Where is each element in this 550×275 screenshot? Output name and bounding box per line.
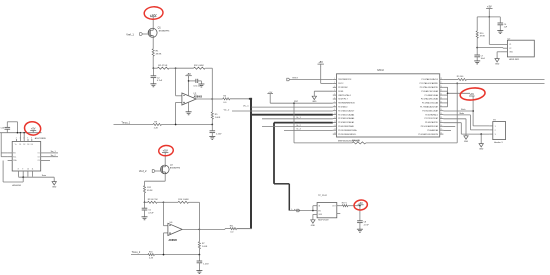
annotation red ellipse around +3V at regulator (353, 199, 368, 211)
svg-text:O1: O1 (37, 153, 39, 155)
capacitor C6 1uF (499, 17, 501, 23)
svg-text:P1.5/TA0.0/SCLK/A5: P1.5/TA0.0/SCLK/A5 (421, 98, 438, 101)
ground for Swin net (53, 177, 55, 181)
ground right of MCU (464, 136, 468, 139)
pin stubs U5 top (16, 139, 18, 142)
wire row1 to R9 (443, 79, 458, 81)
junction bottom net 2 rail (199, 254, 201, 256)
wire opamp2 output to thick bus (237, 228, 252, 230)
svg-text:1.00K: 1.00K (202, 246, 208, 248)
ground below C7 (474, 60, 480, 62)
wire GND pin down (312, 214, 314, 219)
svg-text:X1: X1 (509, 44, 511, 46)
wire right riser to row2 (456, 83, 458, 142)
wire node A to R2 (153, 67, 157, 69)
svg-text:49.9K: 49.9K (156, 53, 162, 55)
node A2 junction (144, 201, 146, 203)
svg-text:P2.2/TA1.1/CA4/A4: P2.2/TA1.1/CA4/A4 (338, 113, 354, 116)
ground below C8 (357, 228, 363, 230)
svg-text:P1.1/TA0.0/UCA0RXD: P1.1/TA0.0/UCA0RXD (420, 82, 439, 85)
svg-text:49.9K: 49.9K (147, 190, 153, 192)
svg-text:ADXL3611: ADXL3611 (509, 58, 520, 61)
svg-text:D3: D3 (27, 144, 29, 146)
junction RST to bottom route (293, 102, 295, 104)
wire R7 to bottom net 2 (198, 249, 200, 255)
svg-text:TP_2102: TP_2102 (318, 195, 328, 197)
wire +3V down to header pin 1 (472, 96, 474, 126)
resistor R4 0.0 (223, 98, 230, 100)
svg-text:XOUT/P2.7: XOUT/P2.7 (338, 99, 347, 101)
svg-text:DVCC: DVCC (338, 83, 344, 85)
wire thick route B horizontal to MCU (274, 122, 333, 124)
wire row13 stub (443, 126, 455, 128)
annotation red ellipse around +5V at U5 (23, 120, 41, 136)
svg-text:Header 3: Header 3 (494, 141, 503, 144)
pin labels U5 right inside (37, 153, 39, 163)
pin labels U5 inside top (15, 144, 33, 146)
svg-text:C6: C6 (504, 24, 506, 26)
resistor R15 2.2K (148, 254, 155, 256)
wire route B jog (274, 183, 289, 185)
wire bottom net 2 left segment (131, 254, 148, 256)
junction bottom net at output rail (211, 124, 213, 126)
wire row10 to header pin 2 (443, 114, 470, 116)
connector P2 Header 3 (493, 122, 506, 140)
ground below U4 (311, 220, 315, 223)
svg-text:26: 26 (440, 86, 442, 88)
svg-text:+5V: +5V (319, 61, 324, 64)
wire node B2 down to inverting input (163, 202, 165, 225)
wire thick vertical bus from outputs (250, 98, 252, 229)
svg-text:12: 12 (334, 121, 336, 123)
wire output2 to R11 (199, 228, 225, 230)
svg-text:GND: GND (311, 225, 316, 227)
resistor R13 47.5K (148, 201, 158, 203)
svg-text:10: 10 (27, 169, 29, 171)
svg-text:24: 24 (440, 94, 442, 96)
capacitor C16 bypass loop (6, 129, 8, 132)
svg-text:MCU: MCU (377, 68, 383, 72)
svg-text:O2: O2 (37, 156, 39, 158)
svg-text:Vtc_1: Vtc_1 (243, 104, 249, 107)
svg-text:Swin: Swin (42, 175, 46, 177)
svg-text:25: 25 (440, 90, 442, 92)
node output2 junction (199, 229, 201, 231)
pin numbers U3 left (334, 78, 336, 135)
svg-text:4.7uF: 4.7uF (364, 224, 370, 226)
svg-text:R2 47.5K: R2 47.5K (158, 65, 168, 67)
svg-text:27: 27 (440, 82, 442, 84)
svg-text:4.7uF: 4.7uF (148, 212, 154, 214)
wire +3V rail (488, 11, 490, 17)
wire output junction down to R5 (211, 99, 213, 112)
wire node B to R3 (176, 67, 194, 69)
wire right pin bus vertical (447, 87, 449, 107)
resistor R16 47K (352, 142, 366, 144)
wire R3 to output rail corner (205, 67, 212, 69)
svg-text:C7: C7 (481, 55, 483, 57)
svg-text:+5V: +5V (163, 149, 168, 153)
svg-text:Sw_1: Sw_1 (51, 151, 57, 153)
svg-text:MCP1700T: MCP1700T (318, 220, 329, 222)
ground below header (479, 144, 483, 147)
capacitor C2 4.7uF (152, 68, 154, 76)
svg-text:22: 22 (440, 101, 442, 103)
wire Vref_2 to Q2 gate (155, 170, 161, 172)
capacitor C4 to ground 1.25V (211, 125, 213, 131)
svg-text:2.2K: 2.2K (154, 127, 159, 129)
svg-text:P3.4/UCA0TXD: P3.4/UCA0TXD (425, 121, 439, 124)
ground below U7 pin3 (495, 59, 499, 62)
capacitor C5 4.7uF (144, 202, 146, 208)
node output1 junction (211, 98, 213, 100)
wire Vref_1 to Q1 gate (143, 33, 149, 35)
pin stubs P2 (489, 125, 493, 127)
svg-text:1.25V: 1.25V (203, 263, 209, 265)
svg-text:SCL: SCL (13, 156, 16, 158)
resistor R12 49.9K (143, 186, 145, 193)
svg-text:P3.2/UCB0SOMI/SCL: P3.2/UCB0SOMI/SCL (338, 134, 356, 136)
junction +3V row9 (472, 110, 474, 112)
pin bus stubs rows 3-8 (443, 86, 447, 88)
svg-text:Vref_1: Vref_1 (126, 32, 134, 36)
svg-text:14: 14 (440, 133, 442, 135)
wire output2 junction down to R7 (198, 229, 200, 241)
transistor Q1 BSS84 (148, 28, 157, 37)
wire row12 to header pin 3 (443, 122, 461, 124)
svg-text:GND: GND (464, 141, 469, 143)
svg-text:P1.3/ADC10CLK/A3: P1.3/ADC10CLK/A3 (421, 90, 438, 93)
wire rail horizontal (477, 16, 500, 18)
svg-text:D4: D4 (31, 144, 33, 146)
svg-text:49.9K: 49.9K (480, 36, 486, 38)
ground below C5 (142, 216, 148, 218)
node +3V net at MCU (447, 92, 449, 94)
svg-text:P1.0/TA0CLK/ACLK: P1.0/TA0CLK/ACLK (422, 78, 439, 81)
svg-text:R16 47K: R16 47K (352, 140, 360, 142)
wire +5V to Q2 (164, 155, 166, 165)
svg-text:R17 0: R17 0 (342, 203, 347, 205)
svg-text:11: 11 (32, 169, 34, 171)
svg-text:6: 6 (31, 137, 32, 139)
wire RST net (269, 94, 271, 104)
svg-text:D1: D1 (19, 144, 21, 146)
ground below C6 (497, 30, 503, 32)
svg-text:P1.7/SDA/CAOUT/A7: P1.7/SDA/CAOUT/A7 (420, 106, 438, 109)
svg-text:4: 4 (23, 137, 24, 139)
wire U5 top pin risers (19, 133, 21, 139)
wire input to EN/IN (289, 210, 313, 212)
wire R9 to edge (467, 79, 545, 81)
wire thick route B vertical (273, 123, 275, 184)
svg-text:ADG715BRU: ADG715BRU (35, 137, 47, 140)
wire R16 to right riser (366, 142, 457, 144)
svg-text:P2.5/ROSC: P2.5/ROSC (338, 87, 348, 89)
svg-text:P2.4/TA1.2/CA1/A1: P2.4/TA1.2/CA1/A1 (338, 121, 354, 124)
node TEST net label (287, 78, 290, 81)
wire feedback rail (211, 68, 213, 99)
wire V+ branch to C3 (188, 80, 190, 82)
wire Sw nets right of U5 (45, 152, 59, 154)
svg-text:P2.1/TA1.1/CAOUT: P2.1/TA1.1/CAOUT (338, 109, 355, 112)
svg-text:15: 15 (440, 129, 442, 131)
svg-text:13: 13 (334, 125, 336, 127)
svg-text:Tmcu_1: Tmcu_1 (121, 121, 130, 124)
wire R5 to bottom net (211, 119, 213, 124)
svg-text:OUT: OUT (332, 206, 336, 208)
svg-text:11: 11 (334, 117, 336, 119)
wire row14 stub (443, 130, 451, 132)
wire route B down to regulator (288, 184, 290, 211)
wire U1 V- to ground (188, 102, 190, 112)
svg-text:20: 20 (440, 109, 442, 111)
svg-text:1.00K: 1.00K (215, 117, 221, 119)
wire U6 output to junction (182, 228, 199, 230)
svg-text:GND: GND (52, 187, 57, 189)
svg-text:+12V: +12V (150, 13, 157, 17)
ground below U1 (186, 111, 192, 113)
wire U1 output to junction (196, 98, 212, 100)
svg-text:BSS84PH6: BSS84PH6 (170, 167, 181, 169)
wire U5 bottom left loop (2, 161, 4, 183)
svg-text:O3: O3 (37, 160, 39, 162)
svg-text:R3 1.00M: R3 1.00M (194, 65, 204, 67)
resistor R10 49.9K (476, 31, 478, 38)
svg-text:P2.0/TA1.0: P2.0/TA1.0 (338, 106, 347, 109)
capacitor C7 10nF (476, 48, 478, 55)
svg-text:TEST/SBWTCK: TEST/SBWTCK (338, 79, 352, 81)
svg-text:2.2K: 2.2K (149, 257, 154, 259)
wire RST bottom route (294, 142, 352, 144)
wire R10 to divider node (476, 38, 478, 47)
resistor R14 1.00M feedback (178, 201, 189, 203)
resistor R11 0.0 (230, 228, 237, 230)
svg-text:D2: D2 (23, 144, 25, 146)
wire output to R4 (212, 98, 223, 100)
annotation red ellipse around +3V near MCU (459, 87, 485, 102)
svg-text:1: 1 (495, 126, 496, 128)
svg-text:X2: X2 (509, 48, 511, 50)
svg-text:5: 5 (27, 137, 28, 139)
wire TEST to pin 1 (290, 79, 333, 81)
svg-text:GND: GND (495, 64, 500, 66)
wire R15 to junctions (155, 254, 200, 256)
node A junction (153, 67, 155, 69)
pin stubs U3 left (333, 79, 337, 81)
wire thick corner from R4 (249, 98, 252, 100)
svg-text:P2.3/TA1.0/CA0/A0: P2.3/TA1.0/CA0/A0 (338, 117, 354, 120)
wire +5V to DVCC pin (320, 66, 322, 83)
wire Q2 source down with jog (164, 174, 166, 181)
svg-text:ADG658: ADG658 (12, 184, 21, 187)
svg-text:2: 2 (495, 130, 496, 132)
pin stubs U3 right (440, 79, 444, 81)
svg-text:AD8605: AD8605 (169, 239, 178, 242)
wire row9 to +3V riser (443, 110, 473, 112)
wire +5V rail of U5 (0, 132, 42, 134)
svg-text:10: 10 (334, 113, 336, 115)
wire RST down to resistor row (293, 103, 295, 143)
wire R13 to node B2 (157, 201, 163, 203)
svg-text:V+: V+ (15, 144, 17, 146)
node top right junction (488, 16, 490, 18)
resistor R8 2.2K (153, 123, 162, 125)
svg-text:9: 9 (22, 169, 23, 171)
ground for C3 (200, 81, 202, 84)
svg-text:P3.5/UCA0RXD/CA5: P3.5/UCA0RXD/CA5 (421, 125, 438, 128)
svg-text:Tmcu_2: Tmcu_2 (132, 251, 141, 254)
pin labels U7 (509, 44, 514, 53)
junction right riser (456, 83, 458, 85)
wire row11 to ground (443, 118, 466, 120)
wire feedback rail 2 (198, 202, 200, 229)
node B2 junction (163, 201, 165, 203)
svg-text:8: 8 (18, 169, 19, 171)
svg-text:P3.6/A6/CA6: P3.6/A6/CA6 (427, 129, 438, 132)
wire U5 bottom net Swin (18, 176, 20, 178)
capacitor C3 0.1uF (195, 79, 197, 83)
svg-text:2: 2 (16, 137, 17, 139)
wire R14 to rail corner (189, 201, 200, 203)
ground below C6b (196, 270, 202, 272)
svg-text:18: 18 (440, 117, 442, 119)
svg-text:P3.0/UCB0STE/A5: P3.0/UCB0STE/A5 (338, 125, 354, 128)
svg-text:P1.6/TA0.1/SCL/A6: P1.6/TA0.1/SCL/A6 (422, 102, 438, 105)
wire bottom net left segment (114, 124, 154, 126)
svg-text:Sbtck: Sbtck (461, 108, 466, 111)
svg-text:4.7uF: 4.7uF (157, 80, 163, 82)
svg-text:Vtc_2: Vtc_2 (224, 108, 230, 111)
svg-text:AD8605: AD8605 (194, 96, 203, 99)
pin stubs U5 right (41, 152, 45, 154)
wire R12 to node A2 (144, 193, 146, 203)
wire EN to IN jog (312, 206, 314, 211)
wire header pin3 to ground (480, 133, 482, 135)
node +3V regulator output (359, 205, 361, 207)
svg-text:R9 100: R9 100 (457, 76, 464, 78)
svg-text:GND: GND (479, 149, 484, 151)
svg-text:BSS84PH6: BSS84PH6 (159, 30, 170, 32)
svg-text:C16: C16 (1, 128, 4, 130)
wire R4 to thick rail (230, 98, 250, 100)
node B junction (175, 67, 177, 69)
wire thick to MCU analog input row (250, 114, 333, 116)
wire row2 to edge (443, 82, 544, 84)
pin labels U3 right column (418, 78, 438, 136)
wire +3V to U7 pin1 (488, 17, 490, 45)
svg-text:16: 16 (440, 125, 442, 127)
resistor R3 1.00M feedback (194, 67, 206, 69)
ground at DVSS (312, 96, 316, 99)
pin labels U4 (318, 206, 335, 217)
op-amp U1 AD8605 (182, 93, 196, 105)
svg-text:R14 1.00M: R14 1.00M (178, 199, 188, 201)
pin stubs U5 bottom (18, 171, 20, 177)
pin stubs U4 left (313, 205, 317, 207)
svg-text:RST/NMI/SBWTDIO: RST/NMI/SBWTDIO (338, 103, 355, 105)
transistor Q2 BSS84 (161, 165, 170, 174)
svg-text:P3.3/UCB0CLK/A7: P3.3/UCB0CLK/A7 (422, 109, 438, 112)
resistor R7 1.00K (198, 242, 200, 249)
svg-text:DVSS: DVSS (338, 91, 344, 93)
wire +12V to Q1 drain (152, 19, 154, 28)
junction bottom net 2 plus leg (163, 254, 165, 256)
wire divider to U7 pin2 (477, 47, 503, 49)
svg-text:Sw_2: Sw_2 (51, 155, 57, 157)
pin labels U3 left column (338, 79, 357, 136)
svg-text:IN1: IN1 (13, 153, 16, 155)
pin labels U5 left inside (13, 153, 17, 163)
capacitor C6b to ground 1.25V (198, 255, 200, 261)
resistor R1 49.9K (152, 49, 154, 56)
wire R1 to node A (152, 56, 154, 68)
node divider junction (476, 47, 478, 49)
resistor R5 1.00K (211, 112, 213, 119)
wire U7 pin3 to ground (501, 51, 508, 53)
ic U4 body (317, 203, 337, 218)
svg-text:Sbdio: Sbdio (459, 113, 464, 115)
resistor R9 100 (458, 78, 467, 80)
svg-text:17: 17 (440, 121, 442, 123)
annotation red ellipse around +12V (144, 6, 164, 20)
op-amp U6 AD8605 (168, 223, 182, 235)
svg-text:Vref_2: Vref_2 (139, 169, 147, 173)
wire non-inverting input to bottom net 2 (164, 232, 168, 234)
svg-text:23: 23 (440, 98, 442, 100)
pin stubs U5 left (8, 152, 13, 154)
svg-text:R13 47.5K: R13 47.5K (148, 199, 158, 201)
wire DVSS to ground (314, 90, 333, 92)
pin numbers U3 right (440, 78, 442, 135)
ground below C4 (209, 135, 215, 137)
svg-text:15: 15 (334, 133, 336, 135)
wire U1 V+ to +5V (188, 76, 190, 96)
wire Q1 source down (152, 38, 154, 49)
resistor R17 0 (342, 205, 348, 207)
wire left branch down (476, 17, 478, 31)
wire node B2 to R14 (164, 201, 179, 203)
ground below C2 (150, 83, 156, 85)
svg-text:P1.2/TA0.1/UCA0TXD: P1.2/TA0.1/UCA0TXD (420, 86, 439, 89)
svg-text:P2.6/XIN/TA0.1: P2.6/XIN/TA0.1 (425, 113, 438, 116)
wire non-inverting input down to bottom net (176, 101, 182, 103)
wire U5 left edge net (0, 133, 2, 157)
svg-text:14: 14 (334, 129, 336, 131)
svg-text:28: 28 (440, 78, 442, 80)
wire R17 to +3V junction (348, 205, 360, 207)
wire R8 to junctions (162, 124, 213, 126)
svg-text:1.25V: 1.25V (216, 133, 222, 135)
svg-text:P2.7/XOUT/CA7: P2.7/XOUT/CA7 (424, 117, 438, 120)
svg-text:3: 3 (495, 134, 496, 136)
svg-text:3: 3 (20, 137, 21, 139)
svg-text:19: 19 (440, 113, 442, 115)
pin stub U4 right (337, 205, 341, 207)
ic U5 body (12, 142, 41, 172)
svg-text:XIN/P2.6/TA0.1: XIN/P2.6/TA0.1 (338, 94, 351, 97)
svg-text:P1.4/SMCLK/A4: P1.4/SMCLK/A4 (425, 94, 438, 97)
wire node A2 to R13 (145, 201, 148, 203)
wire node B down to inverting input (175, 68, 177, 96)
svg-text:P3.1/UCB0SIMO/SDA: P3.1/UCB0SIMO/SDA (338, 129, 357, 132)
capacitor C8 4.7uF (359, 206, 361, 221)
resistor R2 47.5K (157, 67, 169, 69)
ic U3 MCU body (337, 74, 440, 137)
junction rail dots (17, 132, 19, 134)
annotation red ellipse around +5V channel 2 (158, 145, 174, 157)
ic U7 body (507, 40, 534, 57)
svg-text:P1.4/SMCLK/UCB0STE: P1.4/SMCLK/UCB0STE (418, 134, 438, 136)
